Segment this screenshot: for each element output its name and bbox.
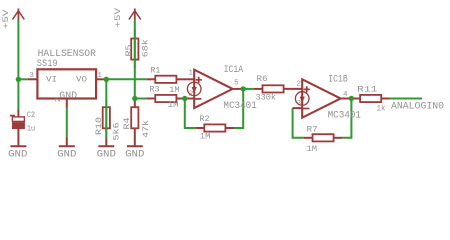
svg-text:R11: R11	[357, 84, 378, 94]
wire R7 to IC1B out	[342, 99, 351, 138]
resistor R4 leads	[134, 99, 136, 108]
svg-text:1u: 1u	[27, 124, 36, 134]
svg-text:1k: 1k	[377, 104, 386, 114]
op-amp IC1B	[293, 79, 351, 117]
svg-text:330k: 330k	[256, 92, 277, 102]
wire IC1A out to R6	[243, 88, 254, 90]
ground symbol under C2	[10, 145, 26, 147]
junction node IC1B output	[349, 96, 354, 101]
svg-text:GND: GND	[8, 150, 27, 161]
junction node VO	[104, 77, 109, 82]
resistor R5 body	[131, 39, 138, 60]
svg-text:47k: 47k	[141, 120, 151, 138]
wire R11 to ANALOGIN0	[390, 98, 422, 100]
svg-text:MC3401: MC3401	[223, 101, 256, 112]
junction node IC1A output	[241, 86, 246, 91]
wire VO down to R10	[105, 79, 107, 138]
svg-text:1M: 1M	[200, 132, 211, 142]
resistor R6	[254, 85, 302, 92]
svg-text:R5: R5	[124, 45, 134, 57]
resistor R7	[304, 134, 342, 141]
svg-text:2: 2	[296, 80, 301, 88]
svg-text:SS19: SS19	[37, 59, 58, 70]
svg-text:GND: GND	[57, 150, 76, 161]
wire R2 feedback loop	[185, 99, 196, 129]
svg-text:R3: R3	[149, 85, 159, 95]
svg-text:GND: GND	[125, 150, 144, 161]
op-amp IC1A	[185, 70, 242, 108]
resistor R1	[147, 76, 185, 83]
svg-text:VO: VO	[76, 74, 87, 84]
svg-text:5: 5	[234, 79, 239, 87]
resistor R10 body	[103, 107, 110, 128]
svg-text:R7: R7	[307, 125, 318, 135]
supply +5V P2 arrow	[129, 9, 141, 20]
svg-text:1: 1	[188, 70, 193, 78]
svg-text:68k: 68k	[141, 39, 151, 57]
svg-text:GND: GND	[97, 150, 116, 161]
svg-text:1M: 1M	[169, 85, 180, 95]
hallsensor pin 1 VO	[96, 78, 106, 80]
wire VO row to R1	[106, 78, 146, 80]
wire R7 feedback loop	[293, 108, 304, 138]
svg-text:MC3401: MC3401	[328, 110, 361, 121]
svg-text:+5V: +5V	[1, 9, 11, 29]
hallsensor pin 3 VI	[28, 78, 38, 80]
wire +5V P2 down through R5 to node	[134, 20, 136, 99]
svg-text:1: 1	[97, 72, 102, 80]
capacitor C2	[10, 110, 25, 146]
svg-text:R2: R2	[199, 114, 209, 124]
ground symbol under R4	[125, 146, 144, 160]
resistor R11	[351, 95, 389, 102]
svg-text:IC1A: IC1A	[224, 65, 244, 76]
svg-text:VI: VI	[46, 74, 57, 84]
supply +5V P1 arrow	[13, 9, 25, 20]
svg-text:1M: 1M	[168, 100, 179, 110]
svg-text:C2: C2	[27, 110, 36, 120]
wire +5V P1 to VI and C2	[17, 20, 19, 111]
svg-text:ANALOGIN0: ANALOGIN0	[391, 101, 444, 112]
resistor R2	[196, 124, 234, 131]
hallsensor pin 2 GND	[66, 99, 68, 109]
svg-text:3: 3	[29, 72, 34, 80]
ground symbol under R10	[97, 138, 116, 160]
svg-text:R6: R6	[257, 74, 268, 84]
wire junction P1 to hall VI	[18, 78, 28, 80]
svg-text:R1: R1	[150, 65, 160, 75]
resistor R4 body	[131, 107, 138, 128]
resistor R5 green through-wire	[134, 30, 136, 68]
svg-text:IC1B: IC1B	[328, 75, 348, 86]
wire R2 to IC1A out	[234, 89, 243, 128]
svg-text:GND: GND	[59, 90, 77, 101]
svg-text:+5V: +5V	[113, 7, 123, 27]
junction node R5-R3-R4	[132, 96, 137, 101]
hallsensor U1 box	[37, 69, 96, 98]
wire hall GND pin down	[66, 108, 68, 137]
svg-text:1M: 1M	[307, 144, 318, 154]
svg-text:R4: R4	[122, 118, 132, 130]
resistor R3	[147, 95, 185, 102]
resistor R10 green through-wire	[105, 99, 107, 138]
svg-text:R10: R10	[94, 117, 104, 135]
svg-text:4: 4	[343, 91, 348, 99]
svg-text:5k6: 5k6	[112, 123, 122, 141]
junction node P1-VI	[16, 77, 21, 82]
ground symbol under hallsensor	[57, 137, 76, 161]
wire node to R3	[135, 98, 147, 100]
junction node IC1A minus input	[182, 96, 187, 101]
